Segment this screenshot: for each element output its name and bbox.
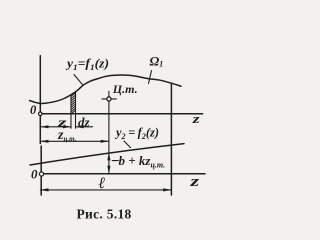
paper background	[0, 0, 248, 238]
wire: left extension line lower section	[40, 146, 42, 195]
leader tick for label Omega1	[149, 71, 152, 84]
curve y1=f1(z)	[30, 75, 182, 103]
wire: lower z-axis	[42, 173, 206, 175]
svg-text:dz: dz	[78, 115, 91, 130]
dimension line z_c.t.	[40, 140, 109, 142]
arrowhead b+kz down	[107, 166, 110, 174]
svg-text:z: z	[189, 174, 199, 190]
centroid marker vertical extension line	[108, 91, 110, 173]
arrowhead z_c.t. left	[40, 140, 48, 143]
svg-text:ℓ: ℓ	[98, 175, 106, 192]
arrowhead z right	[63, 125, 71, 128]
dimension line dz tail	[76, 126, 93, 128]
wire: upper y-axis vertical at x=40.3	[39, 56, 41, 114]
leader dash for label b+kz	[112, 160, 118, 162]
svg-text:y2 = f2(z): y2 = f2(z)	[114, 125, 159, 142]
wire: left extension line below upper origin	[39, 114, 41, 144]
svg-text:y1=f1(z): y1=f1(z)	[65, 57, 109, 73]
arrowhead z left	[40, 125, 48, 128]
arrowhead b+kz up	[107, 153, 110, 161]
arrowhead l left	[40, 188, 48, 191]
centroid circle C.t.	[107, 97, 111, 101]
wire: upper z-axis	[40, 113, 202, 115]
svg-text:Рис. 5.18: Рис. 5.18	[77, 206, 132, 221]
beam end extension line at x=171.4	[170, 83, 172, 195]
svg-text:z: z	[191, 111, 200, 126]
arrowhead z_c.t. right	[101, 140, 109, 143]
arrowhead l right	[163, 188, 171, 191]
leader tick for label y1=f1(z)	[74, 75, 83, 86]
upper origin circle	[39, 112, 43, 116]
lower origin circle	[39, 172, 43, 176]
elementary strip dz : left edge	[70, 95, 72, 129]
line y2=f2(z)	[30, 144, 184, 165]
svg-text:0: 0	[30, 103, 37, 117]
dimension line z	[40, 126, 71, 128]
centroid marker horizontal cross line	[102, 98, 117, 100]
leader tick for label y2=f2(z)	[124, 141, 131, 148]
arrowhead dz	[76, 125, 84, 128]
svg-text:Ц.т.: Ц.т.	[112, 82, 138, 96]
elementary strip dz : right edge	[75, 93, 77, 129]
svg-text:0: 0	[31, 167, 38, 182]
dimension line l	[40, 189, 171, 191]
strip hatching	[71, 93, 76, 114]
